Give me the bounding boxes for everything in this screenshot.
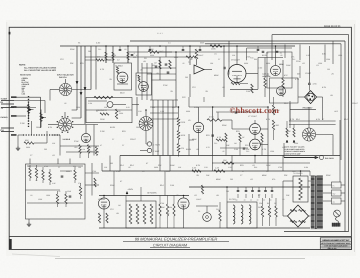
svg-text:C7: C7	[240, 174, 242, 177]
svg-text:.05: .05	[128, 166, 131, 169]
svg-text:6.3V: 6.3V	[316, 118, 321, 121]
svg-text:270K: 270K	[74, 140, 79, 143]
svg-text:50/25: 50/25	[216, 170, 221, 173]
svg-text:C12: C12	[110, 208, 114, 211]
svg-text:V7 12AU7: V7 12AU7	[248, 115, 258, 118]
svg-text:V4 6BL8: V4 6BL8	[63, 138, 70, 141]
svg-text:.05: .05	[143, 60, 146, 63]
svg-text:47: 47	[322, 118, 324, 121]
svg-text:150K: 150K	[160, 206, 165, 209]
svg-text:PH: PH	[1, 129, 4, 132]
svg-text:.05: .05	[216, 194, 219, 197]
svg-text:40: 40	[244, 199, 246, 202]
svg-text:4.7K: 4.7K	[290, 118, 295, 121]
svg-text:R31: R31	[240, 164, 244, 167]
svg-text:C12: C12	[246, 150, 249, 153]
svg-text:1M: 1M	[185, 76, 188, 79]
svg-text:R31: R31	[80, 62, 84, 65]
svg-text:470: 470	[166, 212, 169, 215]
svg-text:3.3M: 3.3M	[304, 166, 308, 169]
svg-text:.05: .05	[190, 58, 193, 61]
svg-text:470K: 470K	[209, 116, 214, 119]
svg-text:C12: C12	[60, 58, 64, 61]
svg-text:C12: C12	[292, 58, 295, 61]
svg-text:.001: .001	[74, 146, 78, 149]
svg-text:.02: .02	[118, 110, 121, 113]
svg-text:.05: .05	[196, 148, 199, 151]
svg-text:47: 47	[136, 54, 138, 57]
svg-text:1M: 1M	[44, 148, 47, 151]
svg-text:12AX7: 12AX7	[352, 102, 358, 105]
svg-text:4.7K: 4.7K	[217, 136, 222, 139]
svg-text:PH1 JACK: PH1 JACK	[325, 157, 335, 160]
svg-text:2.2M: 2.2M	[20, 122, 25, 125]
svg-text:PHASE INV: PHASE INV	[303, 106, 313, 109]
svg-text:2.2M: 2.2M	[160, 110, 164, 113]
svg-text:.001: .001	[334, 110, 338, 113]
svg-text:RESISTORS: RESISTORS	[20, 73, 32, 76]
svg-text:.02: .02	[52, 154, 55, 157]
svg-text:C7: C7	[58, 166, 60, 169]
svg-text:C7: C7	[96, 110, 98, 113]
svg-text:680K: 680K	[214, 74, 219, 77]
svg-text:.25: .25	[142, 170, 145, 173]
svg-text:USED WITH 99 AMP: USED WITH 99 AMP	[285, 153, 302, 156]
svg-text:6.3V: 6.3V	[266, 118, 271, 121]
svg-text:680K: 680K	[286, 130, 291, 133]
svg-text:.25: .25	[109, 78, 112, 81]
svg-text:680K: 680K	[262, 174, 267, 177]
svg-text:4.7K: 4.7K	[295, 78, 300, 81]
svg-text:R31: R31	[152, 106, 155, 109]
svg-text:C12: C12	[216, 208, 219, 211]
svg-text:12AX7: 12AX7	[130, 138, 136, 141]
svg-text:6.3V: 6.3V	[322, 86, 327, 89]
svg-text:.05: .05	[156, 72, 159, 75]
svg-text:680K: 680K	[192, 138, 197, 141]
svg-text:270: 270	[78, 182, 81, 185]
svg-text:NOTE:: NOTE:	[19, 64, 26, 67]
svg-text:150K: 150K	[36, 126, 41, 129]
svg-text:50/25: 50/25	[262, 54, 267, 57]
svg-text:.02: .02	[282, 198, 285, 201]
svg-text:100K: 100K	[181, 134, 186, 137]
svg-text:1M: 1M	[152, 64, 155, 67]
svg-text:2.2K: 2.2K	[276, 109, 281, 112]
svg-text:2.2M: 2.2M	[100, 130, 105, 133]
svg-text:1.5M: 1.5M	[258, 67, 263, 70]
svg-text:R1: R1	[78, 42, 80, 45]
svg-text:CIRCUIT DIAGRAM: CIRCUIT DIAGRAM	[153, 244, 188, 248]
svg-text:.02: .02	[194, 194, 197, 197]
svg-text:100K: 100K	[266, 164, 271, 167]
svg-text:40: 40	[236, 199, 238, 202]
svg-text:12AX7: 12AX7	[158, 50, 163, 53]
svg-text:F1: F1	[333, 184, 335, 187]
svg-text:1.5K: 1.5K	[170, 184, 175, 187]
svg-text:100K: 100K	[286, 64, 291, 67]
svg-text:C12: C12	[98, 48, 101, 51]
svg-text:.25: .25	[196, 174, 199, 177]
svg-text:40: 40	[250, 199, 252, 202]
svg-text:HERMON HOSMER SCOTT INC: HERMON HOSMER SCOTT INC	[323, 239, 350, 242]
svg-text:40: 40	[263, 199, 265, 202]
svg-text:C AMP: C AMP	[153, 150, 160, 153]
svg-text:47: 47	[146, 162, 148, 165]
svg-text:1.5K: 1.5K	[246, 90, 251, 93]
svg-text:.25: .25	[222, 150, 225, 153]
svg-text:.02: .02	[222, 86, 225, 89]
svg-text:C7: C7	[122, 144, 124, 147]
svg-text:2.2M: 2.2M	[88, 102, 92, 105]
svg-text:.25: .25	[205, 90, 208, 93]
svg-text:330K: 330K	[70, 48, 75, 51]
svg-text:C4: C4	[168, 42, 170, 45]
svg-text:.25: .25	[331, 73, 334, 76]
svg-text:.02: .02	[124, 48, 127, 51]
svg-text:.05: .05	[58, 190, 60, 193]
svg-text:12AX7: 12AX7	[198, 54, 203, 57]
svg-text:3.3M: 3.3M	[194, 106, 198, 109]
svg-text:2.2M: 2.2M	[306, 54, 310, 57]
svg-text:220K: 220K	[181, 121, 186, 124]
svg-text:.25: .25	[170, 90, 173, 93]
svg-text:100K: 100K	[211, 48, 216, 51]
svg-text:1M: 1M	[266, 74, 269, 77]
svg-text:270K: 270K	[163, 84, 168, 87]
svg-text:330K: 330K	[326, 174, 331, 177]
svg-text:.05: .05	[64, 102, 67, 105]
svg-text:220K: 220K	[296, 60, 301, 63]
svg-text:.05: .05	[116, 212, 119, 215]
svg-text:FILTER: FILTER	[229, 198, 236, 201]
svg-text:R14: R14	[254, 166, 257, 169]
svg-text:470: 470	[272, 178, 275, 181]
svg-text:V8 6X4: V8 6X4	[98, 198, 105, 201]
svg-text:50/25: 50/25	[258, 206, 263, 209]
svg-text:.01: .01	[214, 53, 217, 56]
svg-text:100K: 100K	[279, 63, 284, 66]
svg-text:+350V: +350V	[128, 188, 134, 191]
svg-text:6.3V: 6.3V	[196, 164, 201, 167]
svg-text:1M: 1M	[88, 50, 91, 53]
svg-text:6.3V: 6.3V	[48, 126, 53, 129]
svg-text:1M: 1M	[327, 68, 330, 71]
svg-text:47: 47	[100, 144, 102, 147]
svg-text:680K: 680K	[216, 178, 221, 181]
svg-text:.02: .02	[302, 62, 305, 65]
svg-text:330K: 330K	[222, 124, 227, 127]
svg-text:1M: 1M	[230, 178, 233, 181]
svg-text:.05: .05	[330, 94, 333, 97]
svg-text:2.2M: 2.2M	[96, 42, 101, 45]
svg-text:C12: C12	[192, 86, 196, 89]
svg-text:1M: 1M	[110, 162, 113, 165]
svg-text:1.5K: 1.5K	[234, 148, 239, 151]
svg-text:4.7K: 4.7K	[100, 68, 105, 71]
svg-text:C7: C7	[258, 194, 260, 197]
svg-text:.05: .05	[266, 170, 269, 173]
svg-text:TYPE 99 POWER AMPLIFIER: TYPE 99 POWER AMPLIFIER	[324, 245, 348, 248]
svg-text:12AX7: 12AX7	[196, 198, 201, 201]
svg-text:40: 40	[270, 199, 272, 202]
svg-text:4.7K: 4.7K	[262, 148, 267, 151]
svg-text:R31: R31	[254, 58, 257, 61]
svg-text:99 MONAURAL EQUALIZER-PREAMPL: 99 MONAURAL EQUALIZER-PREAMPLIFIER	[135, 237, 218, 242]
svg-text:270K: 270K	[246, 56, 251, 59]
svg-text:ALL CAPACITOR VALUES IN MFD: ALL CAPACITOR VALUES IN MFD	[24, 69, 57, 72]
svg-text:R31: R31	[236, 130, 240, 133]
svg-text:C7: C7	[30, 154, 32, 157]
svg-text:©hhscott.com: ©hhscott.com	[230, 106, 280, 115]
svg-text:6BL8: 6BL8	[120, 92, 124, 95]
svg-text:PHONO: PHONO	[1, 116, 8, 119]
svg-text:V3 12AX7: V3 12AX7	[231, 59, 241, 62]
svg-text:.25: .25	[182, 62, 185, 65]
svg-text:R31: R31	[122, 130, 126, 133]
svg-text:C7: C7	[242, 170, 244, 173]
svg-text:.02: .02	[30, 194, 33, 197]
svg-text:N - 4 1: N - 4 1	[157, 32, 163, 35]
svg-text:40: 40	[257, 199, 259, 202]
svg-text:.02: .02	[35, 179, 37, 182]
svg-text:250K: 250K	[200, 42, 205, 45]
svg-text:C TAPE: C TAPE	[153, 144, 161, 147]
svg-text:SW: SW	[333, 192, 336, 195]
svg-text:150K: 150K	[136, 126, 141, 129]
svg-text:C7: C7	[218, 58, 220, 61]
svg-text:NETWORK: NETWORK	[147, 192, 157, 195]
svg-text:.05: .05	[280, 54, 283, 57]
svg-text:47: 47	[268, 210, 270, 213]
svg-text:.02: .02	[250, 178, 253, 181]
svg-text:1M: 1M	[226, 190, 229, 193]
svg-text:50/25: 50/25	[186, 148, 191, 151]
svg-text:TUNER: TUNER	[1, 98, 8, 101]
svg-text:.001: .001	[292, 170, 296, 173]
svg-text:PAGE 28 OF 31: PAGE 28 OF 31	[324, 25, 341, 28]
svg-text:330K: 330K	[110, 184, 115, 187]
svg-text:250K: 250K	[100, 118, 105, 121]
svg-text:C7: C7	[112, 138, 114, 141]
svg-text:SWITCH: SWITCH	[59, 76, 67, 79]
svg-text:.25: .25	[192, 170, 195, 173]
svg-text:100K: 100K	[170, 164, 175, 167]
svg-text:R31: R31	[206, 134, 210, 137]
svg-text:12AU7: 12AU7	[305, 72, 312, 75]
svg-text:C12: C12	[214, 142, 217, 145]
svg-text:1.2K: 1.2K	[215, 167, 220, 170]
svg-text:50/25: 50/25	[110, 126, 115, 129]
svg-text:47: 47	[120, 180, 122, 183]
